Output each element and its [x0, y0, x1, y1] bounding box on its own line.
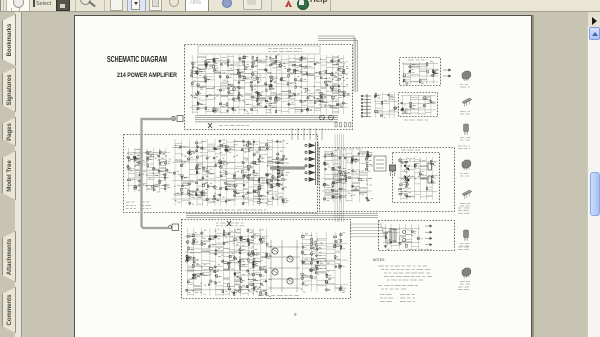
wire bus vertical from equalizer down — [292, 128, 322, 140]
auxiliary parts near connector J3 — [374, 92, 399, 118]
caption head amp lower bottom label — [404, 119, 428, 121]
caption MAIN POWER SUPPLY — [401, 149, 420, 151]
svg-text:SCHEMATIC DIAGRAM: SCHEMATIC DIAGRAM — [107, 54, 167, 64]
notes line 5 — [387, 279, 423, 281]
wire bus top lines to right connector — [318, 36, 358, 92]
power amplifier output stage wiring — [300, 232, 348, 292]
notes line 6 — [378, 285, 418, 287]
svg-text:9: 9 — [294, 312, 297, 317]
package label P3 — [460, 138, 470, 141]
package label P1 — [460, 85, 470, 88]
block output relay and muting (dashed box) — [320, 148, 455, 212]
package drawing P7 transistor case — [462, 268, 471, 278]
head amp lower circuitry — [401, 95, 436, 115]
package label P7 — [460, 282, 470, 285]
connector J3 multi-pin — [361, 94, 371, 117]
equalizer amplifier circuitry (Q1-Q8, R1-R40) — [190, 55, 350, 114]
line output arrows — [443, 69, 451, 78]
speaker terminal arrows — [425, 225, 432, 246]
caption EQUALIZER AMPLIFIER title — [268, 49, 302, 52]
package label P4 — [460, 174, 469, 177]
notes line 4 — [384, 276, 432, 278]
package drawing P6 transistor case — [464, 230, 469, 241]
power transistors Q49 Q50 Q51 Q52 (TO-3 on heat sink) — [272, 248, 293, 284]
block head amp upper-right (dashed box) — [400, 58, 441, 86]
package label P5 — [460, 204, 470, 207]
output protection circuitry (Q17-Q24) — [322, 150, 373, 202]
caption frame around equalizer title — [198, 46, 320, 54]
ribbon cable into IC U1 — [270, 166, 305, 169]
schematic page — [74, 15, 532, 337]
filter capacitors C51 C52 — [420, 163, 432, 183]
caption head amp upper title — [408, 59, 427, 61]
block tone control / output protection (dashed box) — [124, 135, 318, 213]
wire bus equalizer outputs — [195, 116, 338, 122]
tone control diode matrix (D1-D8) — [127, 148, 172, 192]
notes line 3 — [384, 272, 430, 274]
scrollbar thumb — [590, 172, 600, 216]
svg-text:NOTES:: NOTES: — [373, 258, 385, 262]
notes table r3a — [380, 301, 392, 303]
block main power supply (dashed box) — [393, 153, 440, 203]
block power amplifier channel (dashed box) — [182, 220, 351, 299]
notes table r2a — [380, 297, 393, 299]
caption equalizer bottom note — [219, 125, 249, 127]
main power supply internal parts — [398, 157, 437, 200]
scrollbar up button — [589, 27, 600, 40]
bridge rectifier D51-D54 — [404, 165, 410, 181]
caption output relay title — [337, 148, 361, 150]
notes table r1b — [400, 294, 415, 296]
package drawing P4 transistor case — [462, 160, 471, 170]
shielded cable from input jack to power amp input — [142, 119, 177, 228]
wire bus vertical right of tone block — [335, 134, 344, 222]
caption Q-49..52 on heat sink — [258, 296, 300, 299]
package drawing P5 transistor case — [462, 190, 472, 199]
caption speaker box label — [407, 249, 432, 251]
right column label B — [458, 208, 470, 213]
transistors Q7 Q8 below equalizer (with circles) — [320, 115, 334, 120]
head amp upper circuitry — [402, 61, 439, 84]
wire bus below tone block — [186, 214, 378, 218]
notes table r3b — [400, 301, 415, 303]
input jack J1 phono input — [171, 116, 183, 122]
IC U1 input pin arrows — [277, 166, 281, 185]
notes line 7 — [381, 288, 406, 290]
svg-text:214 POWER AMPLIFIER: 214 POWER AMPLIFIER — [117, 72, 177, 79]
package label P2 — [460, 112, 470, 115]
cable tie X mark 1 — [208, 123, 212, 128]
caption OUTPUT PROTECTION AND MUTING — [213, 209, 266, 211]
package drawing P3 transistor case — [464, 124, 469, 135]
notes line 1 — [378, 265, 427, 267]
right column label A — [458, 146, 470, 149]
relay RY1 output relay — [374, 156, 386, 171]
resistor row R45-R48 below equalizer — [335, 123, 351, 127]
block head amp lower-right (dashed box) — [399, 93, 438, 117]
caption 214 CHANNEL POWER AMPLIFIER — [216, 223, 244, 226]
block equalizer amplifier (dashed box) — [185, 45, 353, 130]
scrollbar track — [587, 27, 600, 337]
package label P6 — [460, 244, 469, 247]
notes table r2b — [400, 297, 415, 299]
notes line 2 — [381, 269, 430, 271]
notes table r1a — [380, 294, 392, 296]
connector J2 power amp input — [169, 224, 179, 231]
wire bus to speaker box stepped — [350, 224, 387, 246]
package drawing P1 transistor case — [462, 71, 471, 81]
block speaker terminals (dashed box) — [379, 221, 455, 251]
navigation tab strip — [0, 12, 22, 337]
caption input legend col 1 — [126, 202, 136, 209]
right column label C — [458, 247, 469, 250]
IC U1 muting driver (vertical arrow column) — [305, 142, 318, 185]
right column label D — [458, 287, 469, 290]
speaker terminal box parts — [383, 224, 423, 249]
wires to power output transistors — [268, 240, 300, 292]
application toolbar (partially cropped) — [0, 0, 600, 12]
power amplifier front-end circuitry (Q31-Q44) — [185, 228, 272, 296]
tone control circuitry (Q9-Q16) — [172, 139, 289, 206]
pane toggle arrow — [592, 17, 597, 25]
right gutter above scrollbar — [588, 12, 600, 27]
cable tie X mark 2 — [227, 221, 231, 226]
caption input legend col 2 — [140, 202, 151, 209]
transformer T1 power transformer — [390, 165, 396, 176]
package drawing P2 transistor case — [462, 98, 472, 107]
speaker box internal parts — [390, 229, 406, 242]
